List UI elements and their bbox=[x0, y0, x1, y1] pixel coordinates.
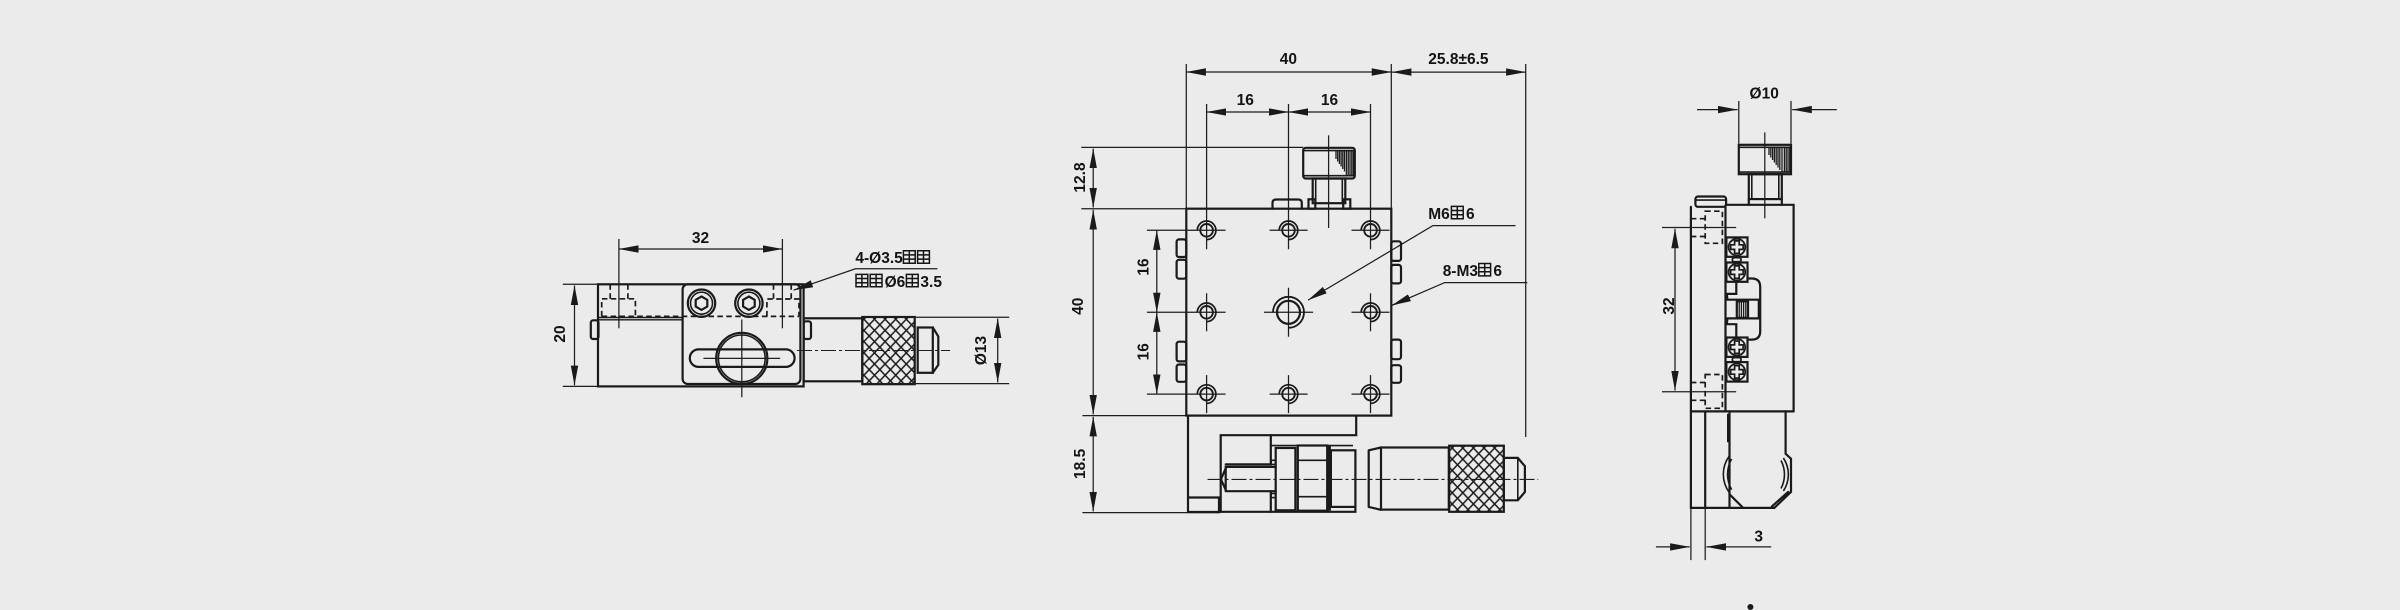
top surface screw head bbox=[1273, 200, 1302, 209]
bottom drive housing bbox=[1728, 411, 1730, 508]
micrometer bracket bbox=[1221, 416, 1357, 512]
svg-text:Ø13: Ø13 bbox=[973, 335, 990, 365]
housing bottom bbox=[1221, 507, 1356, 512]
micrometer mount block bbox=[1331, 450, 1356, 507]
dimension 25.8±6.5 bbox=[1525, 64, 1527, 437]
hidden counterbore hole left (dashed) bbox=[602, 299, 636, 317]
moving plate bbox=[1690, 207, 1692, 508]
stem flange blocks bbox=[1309, 199, 1316, 208]
dimension 32 bbox=[1662, 228, 1736, 392]
svg-text:16: 16 bbox=[1237, 92, 1255, 109]
svg-text:Ø6: Ø6 bbox=[885, 274, 906, 291]
svg-text:40: 40 bbox=[1280, 51, 1297, 68]
screw boss bump bbox=[1748, 279, 1761, 340]
taper cone bbox=[1369, 448, 1381, 510]
knob knurl bbox=[1769, 147, 1790, 172]
micrometer sleeve bbox=[1381, 448, 1449, 510]
knob stem bbox=[1749, 174, 1782, 199]
svg-text:25.8±6.5: 25.8±6.5 bbox=[1428, 51, 1489, 68]
main body block bbox=[1726, 205, 1794, 412]
dimension 40 (left) bbox=[1092, 210, 1094, 415]
svg-text:16: 16 bbox=[1135, 343, 1152, 361]
hole circles M3 bbox=[1200, 224, 1377, 400]
hidden cross hole lower (dashed) bbox=[1705, 375, 1722, 409]
svg-text:16: 16 bbox=[1321, 92, 1339, 109]
lead screw nut (hatched) bbox=[1737, 301, 1748, 318]
svg-text:M6: M6 bbox=[1428, 206, 1450, 223]
top edge extension (12.8/40 dims) bbox=[1081, 209, 1186, 416]
side bracket plate (rounded) bbox=[683, 284, 801, 384]
spindle cone tip bbox=[1221, 469, 1226, 490]
hidden counterbore hole right (dashed) bbox=[767, 299, 799, 316]
leader M6深6 bbox=[1308, 226, 1516, 301]
drive centerline bbox=[1208, 478, 1539, 480]
leader 4-Ø3.5 bbox=[794, 269, 938, 290]
micrometer passage big circle bbox=[716, 333, 767, 384]
hole centerline right / 32-dim extension bbox=[781, 239, 783, 328]
clamp joint (heavy) bbox=[1327, 446, 1330, 511]
hidden cross hole upper (dashed) bbox=[1705, 211, 1722, 243]
knob centerline bbox=[1764, 132, 1766, 218]
clamp slot (stadium) bbox=[690, 349, 795, 367]
dimension 16 16 (left inner) bbox=[1156, 230, 1158, 312]
big circle crosshair bbox=[703, 320, 780, 398]
knurled thimble bbox=[862, 317, 914, 384]
svg-text:12.8: 12.8 bbox=[1072, 162, 1089, 193]
plate/base split lines bbox=[598, 318, 683, 320]
micrometer centerline bbox=[797, 350, 950, 352]
coupling block bbox=[1298, 446, 1327, 511]
micrometer barrel bbox=[804, 318, 863, 381]
hole thread arcs M3 bbox=[1197, 221, 1379, 403]
hole centerline left / 32-dim extension bbox=[618, 239, 620, 328]
svg-text:16: 16 bbox=[1135, 258, 1152, 276]
hex socket screw 2 bbox=[735, 290, 762, 317]
watermark dot bbox=[1747, 604, 1753, 610]
top knob (y-axis lock) bbox=[1303, 148, 1355, 179]
dimension Ø13 bbox=[864, 317, 1009, 383]
knob knurl lines bbox=[1336, 151, 1353, 176]
end cap bbox=[918, 328, 933, 373]
center hole M6 bbox=[1277, 301, 1300, 324]
hidden through hole left (dashed) bbox=[610, 284, 628, 299]
dimension 40 (top) bbox=[1186, 64, 1391, 208]
right side tabs bbox=[1391, 241, 1401, 261]
svg-text:6: 6 bbox=[1493, 263, 1502, 280]
svg-text:20: 20 bbox=[552, 325, 569, 342]
carriage profile bbox=[1727, 282, 1759, 338]
svg-text:6: 6 bbox=[1466, 206, 1475, 223]
svg-text:40: 40 bbox=[1070, 298, 1087, 315]
dimension 16 16 (top) bbox=[1207, 111, 1289, 113]
hidden through hole right (dashed) bbox=[774, 284, 792, 299]
base left edge and foot bbox=[1188, 416, 1219, 512]
spindle bbox=[1226, 467, 1276, 491]
svg-text:3.5: 3.5 bbox=[920, 274, 942, 291]
balls between retainers bbox=[1732, 258, 1741, 262]
right side tab bbox=[804, 321, 811, 339]
svg-text:32: 32 bbox=[1661, 297, 1678, 314]
leader 8-M3深6 bbox=[1392, 283, 1528, 306]
M3 tapped holes 3x3 grid crosshairs bbox=[1147, 104, 1390, 413]
housing side arcs bbox=[1723, 456, 1731, 493]
svg-text:8-M3: 8-M3 bbox=[1443, 263, 1479, 280]
end cap bbox=[1504, 458, 1525, 500]
plate top cap bbox=[1695, 197, 1726, 207]
left side tabs bbox=[1177, 239, 1187, 257]
hex socket screw 1 bbox=[688, 290, 715, 317]
svg-text:4-Ø3.5: 4-Ø3.5 bbox=[855, 250, 903, 267]
ball bearing retainers bbox=[1726, 237, 1747, 381]
dimension 18.5 bbox=[1082, 512, 1220, 514]
svg-text:3: 3 bbox=[1754, 529, 1763, 546]
dimension 12.8 bbox=[1081, 146, 1303, 148]
hidden joint line (dashed) bbox=[602, 315, 799, 317]
left side tab bbox=[591, 320, 599, 339]
spindle flange bbox=[1276, 448, 1296, 510]
stage square body bbox=[1186, 209, 1391, 416]
stage base+top plate outline bbox=[598, 284, 804, 386]
svg-text:32: 32 bbox=[692, 230, 709, 247]
adjustment knob bbox=[1739, 145, 1791, 174]
dimension 3 bbox=[1691, 508, 1705, 560]
note text 沉孔Ø6深3.5 bbox=[856, 274, 868, 286]
knurled thimble bbox=[1449, 446, 1504, 512]
svg-text:Ø10: Ø10 bbox=[1750, 86, 1779, 103]
svg-text:18.5: 18.5 bbox=[1072, 448, 1089, 479]
knob centerline bbox=[1328, 135, 1330, 228]
dimension 20 bbox=[563, 284, 599, 386]
dimension 32 bbox=[619, 248, 783, 250]
knob stem bbox=[1313, 179, 1346, 204]
